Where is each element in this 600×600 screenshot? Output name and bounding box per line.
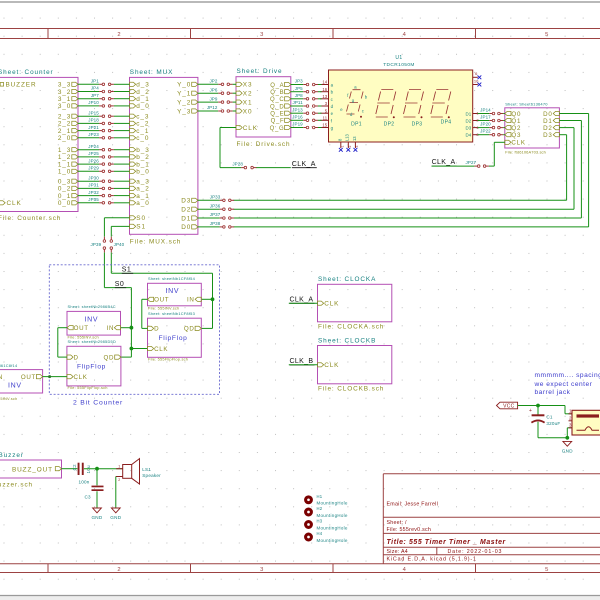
net label CLK_A clocka [290, 296, 315, 303]
wire 1_3 to b_3 [78, 149, 130, 151]
svg-text:15: 15 [322, 123, 327, 128]
sheet Counter [0, 69, 78, 222]
svg-text:Sheet: Counter: Sheet: Counter [0, 69, 54, 76]
svg-text:H2: H2 [317, 506, 323, 511]
jumper JP4 [91, 86, 114, 93]
svg-text:5: 5 [545, 567, 548, 573]
wire Y to X row JP9 [198, 101, 236, 103]
wire MUX D row JP36 [198, 208, 220, 210]
svg-text:3_0: 3_0 [58, 103, 71, 110]
svg-text:S1: S1 [136, 224, 146, 231]
svg-text:LS1: LS1 [142, 467, 151, 472]
svg-text:JP21: JP21 [88, 125, 99, 130]
svg-text:BUZZER: BUZZER [6, 82, 37, 89]
wire D net loop 1 [233, 121, 581, 219]
junction S0/QD/CLK [130, 347, 134, 351]
svg-text:JP33: JP33 [210, 195, 221, 200]
jumper JP19 [292, 122, 318, 129]
svg-text:3_3: 3_3 [58, 82, 71, 89]
sheet INV left (sheetNb2986B4C) [67, 304, 121, 340]
net label CLK_A right [432, 159, 457, 166]
title block [383, 474, 600, 564]
jumper JP12 [207, 105, 233, 112]
jumper JP40 [110, 237, 125, 253]
wire 1_2 to b_2 [78, 156, 130, 158]
svg-text:CLK: CLK [324, 362, 339, 369]
svg-text:a_3: a_3 [136, 179, 149, 186]
jumper JP32 [88, 190, 114, 197]
svg-text:C2: C2 [72, 464, 77, 471]
svg-text:Q_B: Q_B [270, 90, 284, 96]
svg-text:File: Buzzer.sch: File: Buzzer.sch [0, 481, 33, 488]
svg-text:b_1: b_1 [136, 161, 149, 168]
wire jack pin3 to GND rail [567, 428, 572, 438]
svg-text:Y_2: Y_2 [177, 99, 191, 106]
wire C3 to GND [96, 491, 98, 507]
wire speaker pin2 to GND [115, 477, 117, 508]
svg-text:Q_D: Q_D [270, 104, 284, 110]
svg-text:0_2: 0_2 [58, 186, 71, 193]
jumper JP5 [295, 86, 318, 93]
svg-text:2: 2 [118, 478, 120, 482]
svg-text:DP1: DP1 [351, 121, 362, 127]
wire VCC to jack pin1 [518, 406, 572, 414]
svg-text:Email: Jesse Farrell: Email: Jesse Farrell [387, 502, 439, 508]
svg-text:DP3: DP3 [412, 121, 423, 127]
svg-text:+: + [529, 408, 532, 414]
svg-text:GND: GND [562, 449, 573, 454]
svg-text:JP38: JP38 [210, 221, 221, 226]
svg-text:320uF: 320uF [546, 421, 560, 426]
wire Q to display JP3 [291, 84, 322, 86]
jumper JP8 [295, 93, 318, 100]
jumper JP11 [292, 100, 318, 107]
svg-text:2_2: 2_2 [58, 121, 71, 128]
net label S1 [122, 267, 133, 274]
wire 3_0 to d_0 [78, 105, 130, 107]
svg-text:10: 10 [474, 78, 479, 83]
svg-text:0_0: 0_0 [58, 200, 71, 207]
svg-text:C1: C1 [546, 415, 553, 420]
wire display to Q JP22 [478, 134, 505, 136]
wire 1_0 to b_0 [78, 170, 130, 172]
svg-text:Q3: Q3 [511, 132, 521, 139]
svg-text:C3: C3 [85, 495, 92, 500]
svg-text:JP5: JP5 [295, 86, 303, 91]
wire 0_0 to a_0 [78, 202, 130, 204]
svg-text:CLK_A: CLK_A [290, 296, 314, 303]
wire Q to display JP8 [291, 98, 322, 100]
wire Drive CLK to CLK_A [220, 128, 291, 168]
svg-text:QD: QD [104, 354, 115, 361]
note text barrel jack [534, 372, 600, 396]
svg-text:Title: 555 Timer Timer _ Maste: Title: 555 Timer Timer _ Master [387, 539, 506, 546]
svg-text:OUT: OUT [154, 297, 169, 304]
barrel jack J1 [569, 409, 600, 435]
svg-text:JP22: JP22 [480, 129, 491, 134]
capacitor C2 10u [72, 463, 91, 475]
wire Y to X row JP6 [198, 92, 236, 94]
svg-text:QD: QD [184, 326, 195, 333]
sheet FlipFlop left (sheetNb2985D5D) [67, 339, 121, 390]
jumper JP21 [88, 125, 114, 132]
svg-text:JP40: JP40 [114, 242, 125, 247]
sheet Buzzer [0, 452, 62, 488]
svg-text:S0: S0 [115, 281, 124, 288]
svg-text:D0: D0 [181, 224, 191, 231]
svg-text:Sheet: /: Sheet: / [387, 520, 408, 526]
wire S1 net [111, 226, 212, 299]
svg-text:2: 2 [117, 32, 120, 38]
wire Q to display JP16 [291, 119, 322, 121]
svg-text:JP37: JP37 [210, 212, 221, 217]
svg-text:13: 13 [352, 136, 357, 141]
svg-text:D1: D1 [543, 118, 553, 125]
svg-text:S1: S1 [122, 267, 131, 274]
svg-text:JP9: JP9 [209, 96, 217, 101]
svg-text:TDCR1050M: TDCR1050M [383, 62, 415, 68]
svg-text:a_1: a_1 [136, 193, 149, 200]
svg-text:Q0: Q0 [511, 111, 521, 118]
jumper JP18 [88, 118, 114, 125]
svg-text:CLK: CLK [7, 200, 22, 207]
jumper JP14 [480, 108, 503, 115]
wire S0 net [104, 218, 147, 349]
svg-text:d_0: d_0 [136, 103, 149, 110]
svg-text:GND: GND [91, 515, 102, 520]
svg-text:MountingHole: MountingHole [317, 501, 349, 506]
svg-text:JP27: JP27 [466, 160, 477, 165]
svg-text:3_1: 3_1 [58, 96, 71, 103]
svg-text:X3: X3 [243, 82, 253, 89]
junction S0/IN [130, 326, 134, 330]
svg-text:Sheet: Drive: Sheet: Drive [237, 68, 283, 75]
svg-text:JP32: JP32 [88, 190, 99, 195]
wire INV OUT to FF D left [58, 328, 67, 357]
svg-text:a_0: a_0 [136, 200, 149, 207]
svg-text:Sheet: sheetNb2985D5D: Sheet: sheetNb2985D5D [68, 339, 117, 344]
svg-text:Sheet: sheetN61C8f14: Sheet: sheetN61C8f14 [0, 363, 18, 368]
jumper JP30 [88, 175, 114, 182]
svg-text:JP11: JP11 [292, 100, 303, 105]
jumper JP31 [88, 183, 114, 190]
svg-text:JP31: JP31 [88, 183, 99, 188]
display U1 TDCR1050M [320, 55, 481, 152]
sheet INV right (sheetNb1CF8f54) [148, 276, 202, 311]
svg-text:CLK: CLK [243, 125, 258, 132]
svg-text:JP29: JP29 [88, 166, 99, 171]
svg-text:MountingHole: MountingHole [317, 525, 349, 530]
svg-text:JP39: JP39 [91, 242, 102, 247]
svg-text:CLK: CLK [74, 374, 88, 381]
svg-text:Y_1: Y_1 [177, 91, 191, 98]
svg-text:JP8: JP8 [295, 93, 303, 98]
svg-text:D: D [154, 326, 159, 333]
ground below jack [562, 441, 573, 453]
svg-text:GND: GND [110, 515, 121, 520]
ground below speaker [110, 508, 121, 520]
svg-text:0_3: 0_3 [58, 179, 71, 186]
wire 2_0 to c_0 [78, 137, 130, 139]
sheet Sheet6136470 [505, 102, 560, 155]
svg-text:3: 3 [260, 32, 263, 38]
wire 0_2 to a_2 [78, 187, 130, 189]
svg-text:Q_F: Q_F [271, 119, 285, 125]
sheet FlipFlop right (sheetNb1CF8f53) [148, 311, 202, 362]
svg-text:JP19: JP19 [292, 122, 303, 127]
wire 3_1 to d_1 [78, 98, 130, 100]
wire 2_3 to c_3 [78, 115, 130, 117]
svg-text:CLK: CLK [511, 140, 526, 147]
svg-text:CLK_B: CLK_B [290, 358, 314, 365]
jumper JP39 [91, 237, 106, 253]
svg-text:JP4: JP4 [91, 86, 99, 91]
svg-text:5: 5 [545, 32, 548, 38]
svg-text:File: ftd6106A703.sch: File: ftd6106A703.sch [505, 149, 546, 154]
svg-text:H3: H3 [317, 519, 323, 524]
svg-text:JP17: JP17 [480, 115, 491, 120]
svg-text:File: 555INV.sch: File: 555INV.sch [0, 396, 17, 401]
wire Q to display JP11 [291, 105, 322, 107]
svg-text:3: 3 [355, 146, 359, 148]
jumper JP16 [292, 115, 318, 122]
svg-text:Y_0: Y_0 [177, 82, 191, 89]
svg-text:JP26: JP26 [88, 158, 99, 163]
wire display to Q JP14 [478, 113, 505, 115]
svg-text:1_1: 1_1 [58, 161, 71, 168]
svg-text:2_0: 2_0 [58, 135, 71, 142]
svg-text:Sheet: CLOCKA: Sheet: CLOCKA [318, 276, 376, 283]
jumper JP33 [210, 195, 234, 202]
jumper JP24 [88, 144, 114, 151]
svg-text:Q_C: Q_C [270, 97, 284, 103]
junction on OUT wire [48, 375, 51, 378]
svg-text:X2: X2 [243, 91, 253, 98]
svg-text:13: 13 [322, 94, 327, 99]
svg-text:JP7: JP7 [91, 93, 99, 98]
jumper JP10 [88, 100, 114, 107]
wire Q to display JP19 [291, 127, 322, 129]
svg-text:IN: IN [187, 297, 195, 304]
svg-text:JP6: JP6 [209, 87, 217, 92]
svg-text:JP10: JP10 [88, 100, 99, 105]
svg-text:10u: 10u [86, 465, 91, 474]
svg-text:Sheet: MUX: Sheet: MUX [130, 69, 173, 76]
svg-text:c_0: c_0 [136, 135, 149, 142]
net label S0 [115, 281, 126, 288]
svg-text:File: Counter.sch: File: Counter.sch [0, 215, 61, 222]
svg-text:D3: D3 [543, 132, 553, 139]
jumper JP36 [210, 203, 234, 210]
jumper JP6 [209, 87, 232, 94]
svg-text:c: c [362, 108, 364, 113]
jumper JP17 [480, 115, 503, 122]
svg-text:16: 16 [322, 87, 327, 92]
svg-text:JP12: JP12 [207, 105, 218, 110]
sheet MUX [130, 69, 198, 246]
svg-text:Y_3: Y_3 [177, 108, 191, 115]
wire D net loop 2 [233, 128, 574, 210]
svg-text:d_2: d_2 [136, 89, 149, 96]
svg-text:OUT: OUT [74, 325, 89, 332]
wire Q to display JP5 [291, 91, 322, 93]
svg-text:c_1: c_1 [136, 128, 149, 135]
jumper JP26 [88, 158, 114, 165]
ground below C3 [91, 508, 102, 520]
svg-text:Q2: Q2 [511, 125, 521, 132]
wire 3_2 to d_2 [78, 91, 130, 93]
svg-text:11: 11 [323, 116, 328, 121]
wire C2 to speaker [84, 468, 123, 470]
svg-text:D1: D1 [181, 215, 191, 222]
svg-text:2_1: 2_1 [58, 128, 71, 135]
svg-text:File: 555FlipFlop.sch: File: 555FlipFlop.sch [68, 385, 108, 390]
svg-text:D0: D0 [543, 111, 553, 118]
junction GND rail [565, 436, 569, 440]
svg-text:File: CLOCKB.sch: File: CLOCKB.sch [318, 385, 384, 392]
wire junction to C1 [537, 406, 539, 415]
svg-text:b_2: b_2 [136, 154, 149, 161]
svg-text:OUT: OUT [21, 374, 36, 381]
svg-text:JP3: JP3 [295, 79, 303, 84]
wire 2_1 to c_1 [78, 130, 130, 132]
svg-text:JP13: JP13 [292, 107, 303, 112]
wire BUZZ_OUT to C2 [62, 468, 78, 470]
jumper JP22 [480, 129, 503, 136]
svg-text:b_3: b_3 [136, 147, 149, 154]
svg-text:FlipFlop: FlipFlop [159, 335, 188, 342]
group box 2 Bit Counter [49, 265, 219, 407]
mounting hole H2 [306, 506, 348, 518]
wire INV OUT to FF D right [142, 299, 148, 328]
svg-text:DP2: DP2 [384, 121, 395, 127]
svg-text:FlipFlop: FlipFlop [77, 364, 106, 371]
svg-text:INV: INV [8, 383, 22, 390]
svg-text:INV: INV [85, 316, 99, 323]
wire right FF QD to S1 [201, 299, 212, 328]
wire junction to C3 [96, 469, 98, 486]
capacitor C1 320uF [529, 408, 560, 426]
svg-text:D3: D3 [181, 198, 191, 205]
wire 0_3 to a_3 [78, 180, 130, 182]
wire Q to display JP13 [291, 112, 322, 114]
junction S1/IN/QD [211, 297, 215, 301]
svg-text:JP18: JP18 [88, 118, 99, 123]
svg-text:Speaker: Speaker [142, 473, 161, 478]
svg-text:14: 14 [322, 80, 327, 85]
wire D net loop 0 [233, 114, 588, 227]
sheet CLOCKA [318, 276, 392, 331]
svg-text:JP28: JP28 [232, 161, 243, 166]
svg-text:D3: D3 [465, 125, 471, 130]
svg-text:U1: U1 [395, 55, 402, 61]
wire left FF QD to S0 [121, 349, 131, 358]
mounting hole H1 [306, 494, 348, 506]
jumper JP23 [88, 132, 114, 139]
capacitor C3 100n [78, 479, 103, 499]
svg-text:100n: 100n [78, 479, 89, 484]
svg-text:CLK: CLK [324, 301, 339, 308]
svg-text:Sheet: Buzzer: Sheet: Buzzer [0, 452, 24, 459]
svg-text:JP15: JP15 [88, 110, 99, 115]
jumper JP27 [466, 160, 489, 167]
svg-text:c_3: c_3 [136, 114, 149, 121]
jumper JP9 [209, 96, 232, 103]
svg-text:KiCad E.D.A. kicad (5.1.9)-1: KiCad E.D.A. kicad (5.1.9)-1 [387, 557, 477, 563]
svg-text:D: D [74, 354, 79, 361]
svg-text:1_2: 1_2 [58, 154, 71, 161]
svg-text:JP1: JP1 [91, 79, 99, 84]
svg-text:CLK_A: CLK_A [292, 161, 316, 168]
wire 3_3 to d_3 [78, 83, 130, 85]
svg-text:BUZZ_OUT: BUZZ_OUT [12, 466, 53, 473]
svg-text:IN: IN [107, 325, 115, 332]
svg-text:D2: D2 [181, 207, 191, 214]
svg-text:we expect center: we expect center [534, 381, 593, 388]
power flag VCC [497, 402, 518, 409]
junction VCC/C1 [536, 404, 540, 408]
junction C2/C3/speaker [95, 467, 99, 471]
net label CLK_A left [292, 161, 317, 168]
svg-text:VCC: VCC [503, 404, 515, 410]
svg-text:File: CLOCKA.sch: File: CLOCKA.sch [318, 324, 384, 331]
svg-text:MountingHole: MountingHole [317, 513, 349, 518]
svg-text:2 Bit Counter: 2 Bit Counter [73, 400, 123, 407]
jumper JP13 [292, 107, 318, 114]
svg-text:D2: D2 [465, 118, 471, 123]
svg-text:3_2: 3_2 [58, 89, 71, 96]
mounting hole H4 [306, 531, 348, 543]
svg-text:File: Drive.sch: File: Drive.sch [237, 141, 291, 148]
svg-text:2: 2 [348, 146, 352, 148]
svg-text:JP24: JP24 [88, 144, 99, 149]
svg-text:b_0: b_0 [136, 169, 149, 176]
svg-text:1: 1 [118, 465, 120, 469]
svg-text:S0: S0 [136, 215, 146, 222]
svg-text:CLK_A: CLK_A [432, 159, 456, 166]
wire MUX D row JP38 [198, 226, 220, 228]
svg-text:Date: 2022-01-03: Date: 2022-01-03 [448, 549, 503, 555]
svg-text:1_3: 1_3 [58, 147, 71, 154]
wire Y to X row JP2 [198, 83, 236, 85]
svg-text:Sheet: sheetNb1CF8f53: Sheet: sheetNb1CF8f53 [148, 311, 195, 316]
jumper JP20 [480, 122, 503, 129]
wire CLK_A to sheet CLK [432, 142, 505, 166]
wire Y to X row JP12 [198, 110, 236, 112]
svg-text:c_2: c_2 [136, 121, 149, 128]
svg-text:IN: IN [0, 374, 3, 381]
svg-text:a_2: a_2 [136, 186, 149, 193]
svg-text:File: 555rev0.sch: File: 555rev0.sch [387, 527, 432, 533]
jumper JP28 [232, 161, 256, 168]
svg-text:JP23: JP23 [88, 132, 99, 137]
svg-text:X0: X0 [243, 108, 253, 115]
jumper JP37 [210, 212, 234, 219]
jumper JP25 [88, 151, 114, 158]
sheet CLOCKB [318, 337, 392, 392]
svg-text:barrel jack: barrel jack [535, 389, 571, 396]
svg-text:Q_G: Q_G [270, 126, 285, 132]
svg-text:D2: D2 [543, 125, 553, 132]
svg-text:JP30: JP30 [88, 175, 99, 180]
svg-text:2: 2 [117, 567, 120, 573]
svg-text:d_1: d_1 [136, 96, 149, 103]
svg-text:Sheet: Sheet6136470: Sheet: Sheet6136470 [505, 102, 548, 107]
svg-text:CLK: CLK [154, 346, 168, 353]
speaker LS1 [116, 459, 161, 484]
svg-text:DP4: DP4 [441, 119, 452, 125]
svg-text:INV: INV [166, 288, 180, 295]
